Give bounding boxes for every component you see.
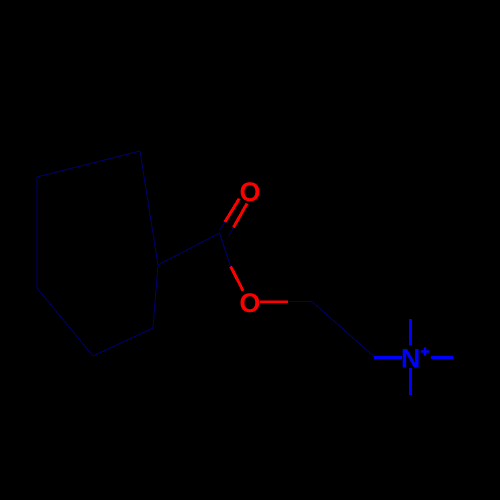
wire ring edge V6-V1 — [140, 151, 158, 265]
wire ring edge V4-V5 — [93, 328, 153, 356]
wire ring edge V1-V2 — [37, 151, 140, 177]
carbonyl group, red — [225, 199, 288, 302]
wire ring edge V2-V3 — [36, 177, 38, 288]
wire bond ring to carbonyl C — [158, 233, 220, 265]
wire ring edge V3-V4 — [37, 288, 93, 356]
bond N methyl down — [409, 368, 412, 395]
bond N methyl up — [409, 319, 412, 346]
quaternary N bonds, bright blue — [374, 319, 453, 395]
bond N methyl right — [431, 356, 453, 359]
wire carbonyl C=O faint stub 1 — [220, 222, 225, 231]
wire C to ester O faint half — [220, 233, 231, 266]
svg-text:N: N — [401, 343, 421, 373]
plus charge sign — [421, 347, 429, 355]
carbonyl C=O double bond line 1 — [225, 199, 239, 222]
bond C to ester O (O half, red) — [231, 266, 244, 290]
wire ring edge V5-V6 — [153, 265, 158, 328]
bond CH2 to N — [374, 356, 402, 359]
svg-text:O: O — [239, 288, 260, 318]
bond ester O to CH2 (red half) — [260, 300, 288, 303]
wire carbonyl C=O faint stub 2 — [229, 227, 234, 236]
faint carbon skeleton — [37, 151, 374, 357]
carbonyl C=O double bond line 2 — [234, 204, 248, 228]
svg-text:O: O — [239, 177, 260, 207]
wire chain CH2-CH2 diagonal — [312, 302, 374, 357]
wire ester O to CH2 faint half — [288, 301, 312, 303]
